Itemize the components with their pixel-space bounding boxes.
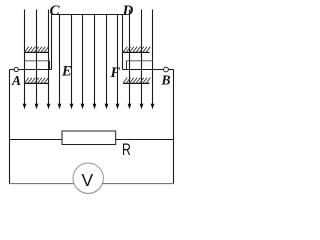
plate E2 upper-right sensing plate [127,61,153,70]
field line 1 [23,10,27,110]
wire right rail [173,70,175,184]
voltmeter V [73,163,103,193]
plate P2 lower-left (hatched) [25,78,49,84]
resistor R [62,131,116,145]
field line 10 [128,10,132,110]
field line 6 [81,15,85,110]
field line 12 [151,10,155,110]
field line 9 [116,15,120,110]
wire D drop [122,15,124,70]
plate P3 upper-right (hatched) [123,47,150,53]
svg-text:C: C [50,3,61,19]
svg-text:B: B [161,73,171,88]
svg-text:F: F [110,65,121,81]
wire voltmeter branch left [10,183,75,185]
svg-text:V: V [81,170,93,190]
wire C-D top bar [52,14,124,16]
field line 3 [47,10,51,110]
svg-text:E: E [61,64,72,80]
plate E1 upper-left sensing plate [25,61,50,70]
terminal B [164,67,169,72]
svg-text:D: D [122,3,134,19]
terminal A [14,67,18,71]
field line 2 [35,10,39,110]
wire B horizontal [123,69,174,71]
wire resistor branch right [116,139,174,141]
wire voltmeter branch right [102,183,174,185]
field line 8 [105,15,109,110]
field line 7 [93,15,97,110]
plate P1 upper-left (hatched) [25,47,49,53]
field line 5 [70,15,74,110]
field line 11 [140,10,144,110]
wire resistor branch left [10,139,63,141]
field line 4 [58,15,62,110]
svg-text:R: R [122,141,131,159]
wire C drop [51,15,53,70]
wire A horizontal [10,69,52,71]
svg-text:A: A [11,73,21,88]
plate P4 lower-right (hatched) [123,78,150,84]
wire left rail [9,70,11,184]
